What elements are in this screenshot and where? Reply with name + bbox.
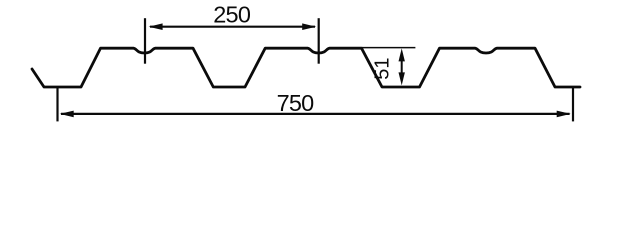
svg-text:250: 250: [213, 1, 251, 27]
dimension 750: right arrowhead: [557, 111, 571, 118]
dimension 250: right arrowhead: [302, 23, 316, 30]
dimension 250: dimension line: [150, 26, 315, 28]
dimension 51: top reference line: [362, 47, 415, 49]
dimension 250: left extension line through rib1 notch: [144, 18, 146, 64]
dimension 51: bottom arrowhead: [399, 72, 405, 85]
dimension 750: left extension line: [56, 88, 58, 121]
svg-text:750: 750: [277, 90, 315, 116]
profile outline (trapezoidal sheet cross-section): [32, 48, 580, 87]
dimension 750: right extension line: [572, 88, 574, 121]
dimension 750: dimension line: [61, 113, 570, 115]
dimension 750: left arrowhead: [60, 111, 74, 118]
dimension 51: top arrowhead: [399, 48, 405, 61]
dimension 250: left arrowhead: [149, 23, 163, 30]
dimension 250: right extension line through rib2 notch: [318, 18, 320, 64]
svg-text:51: 51: [371, 57, 393, 79]
dimension 51: vertical dimension line: [401, 58, 403, 76]
